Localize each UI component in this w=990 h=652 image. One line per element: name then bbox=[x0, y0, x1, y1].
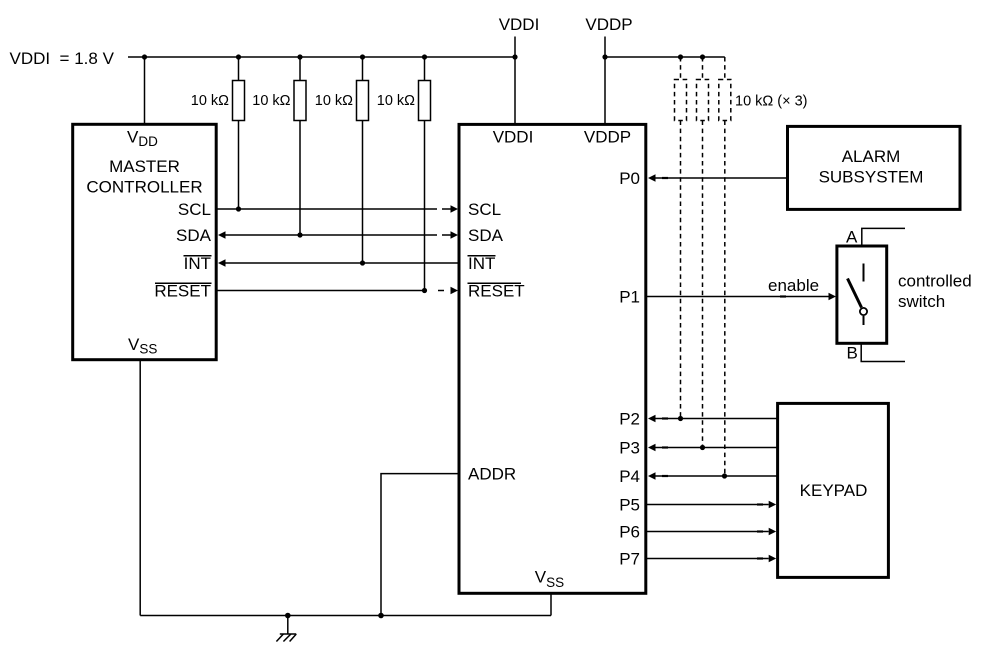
resistor R7 dashed 10 kOhm bbox=[719, 57, 731, 476]
terminal B stub bbox=[861, 343, 905, 361]
wire P7 net bbox=[646, 555, 776, 563]
node junction VDDP rail at drop bbox=[602, 54, 607, 59]
svg-text:P1: P1 bbox=[619, 288, 640, 307]
node junction R4 top bbox=[422, 54, 427, 59]
svg-text:P2: P2 bbox=[619, 410, 640, 429]
resistor R1 10 kOhm bbox=[233, 57, 245, 209]
wire SCL net bbox=[218, 205, 459, 213]
svg-text:P4: P4 bbox=[619, 467, 640, 486]
svg-text:P3: P3 bbox=[619, 439, 640, 458]
svg-text:controlled: controlled bbox=[898, 272, 972, 291]
svg-text:10 kΩ: 10 kΩ bbox=[252, 93, 290, 109]
node junction RESET/R4 bbox=[422, 288, 427, 293]
svg-text:KEYPAD: KEYPAD bbox=[800, 481, 868, 500]
node junction SCL/R1 bbox=[236, 206, 241, 211]
wire P1 enable net bbox=[646, 293, 836, 301]
svg-text:A: A bbox=[846, 227, 858, 246]
svg-text:VDDI: VDDI bbox=[493, 128, 534, 147]
wire INT net bbox=[218, 259, 459, 267]
svg-text:B: B bbox=[847, 344, 858, 363]
wire P3 net bbox=[648, 444, 777, 452]
block ALARM SUBSYSTEM bbox=[788, 126, 961, 209]
resistor R2 10 kOhm bbox=[294, 57, 306, 235]
svg-text:P0: P0 bbox=[619, 169, 640, 188]
wire P6 net bbox=[646, 528, 776, 536]
terminal A stub bbox=[862, 228, 905, 246]
svg-text:VDDI: VDDI bbox=[499, 15, 540, 34]
node junction ground tap bbox=[285, 613, 291, 619]
wire VDDP supply drop bbox=[604, 37, 606, 125]
svg-text:INT: INT bbox=[468, 254, 495, 273]
switch bottom contact bbox=[863, 316, 865, 325]
svg-text:10 kΩ: 10 kΩ bbox=[315, 93, 353, 109]
svg-text:switch: switch bbox=[898, 292, 945, 311]
node junction R6 top bbox=[700, 54, 705, 59]
switch lever bbox=[848, 279, 862, 308]
wire P5 net bbox=[646, 501, 776, 509]
controlled switch S1 bbox=[837, 246, 887, 343]
svg-text:RESET: RESET bbox=[154, 282, 211, 301]
svg-text:SUBSYSTEM: SUBSYSTEM bbox=[819, 168, 924, 187]
node junction SDA/R2 bbox=[297, 232, 302, 237]
svg-text:CONTROLLER: CONTROLLER bbox=[86, 178, 202, 197]
svg-text:ALARM: ALARM bbox=[842, 147, 901, 166]
svg-text:P7: P7 bbox=[619, 550, 640, 569]
node junction ADDR tap bbox=[378, 613, 384, 619]
node junction VDDI rail end bbox=[512, 54, 517, 59]
block MASTER CONTROLLER U1 bbox=[73, 124, 217, 359]
node junction VDD drop bbox=[142, 54, 147, 59]
node junction P4/R7 bbox=[722, 473, 727, 478]
svg-text:SCL: SCL bbox=[468, 200, 501, 219]
node junction R1 top bbox=[236, 54, 241, 59]
node junction P2/R5 bbox=[678, 416, 683, 421]
resistor R5 dashed 10 kOhm bbox=[675, 57, 687, 419]
svg-text:INT: INT bbox=[184, 254, 211, 273]
svg-text:ADDR: ADDR bbox=[468, 465, 516, 484]
resistor R3 10 kOhm bbox=[357, 57, 369, 263]
resistor R4 10 kOhm bbox=[419, 57, 431, 291]
wire VSS bottom net bbox=[140, 360, 551, 616]
wire VDDI supply drop bbox=[514, 37, 516, 125]
svg-text:SDA: SDA bbox=[468, 226, 504, 245]
block I/O expander U2 bbox=[459, 124, 646, 593]
svg-text:VDDI = 1.8 V: VDDI = 1.8 V bbox=[10, 49, 115, 68]
svg-text:SCL: SCL bbox=[178, 200, 211, 219]
node junction INT/R3 bbox=[360, 260, 365, 265]
wire SDA net bbox=[218, 231, 458, 239]
svg-text:MASTER: MASTER bbox=[109, 157, 180, 176]
switch top contact bbox=[863, 264, 865, 282]
node junction R2 top bbox=[297, 54, 302, 59]
wire RESET net bbox=[218, 287, 459, 295]
wire VDDI rail bbox=[128, 56, 515, 58]
wire P4 net bbox=[648, 472, 777, 480]
wire P2 net bbox=[648, 415, 777, 423]
wire P0 net bbox=[648, 174, 787, 182]
svg-text:P6: P6 bbox=[619, 523, 640, 542]
svg-text:10 kΩ: 10 kΩ bbox=[191, 93, 229, 109]
wire VDD drop bbox=[144, 57, 146, 124]
ground symbol bbox=[276, 616, 296, 642]
switch pivot circle bbox=[860, 308, 867, 315]
wire ADDR net bbox=[381, 474, 459, 616]
svg-text:SDA: SDA bbox=[176, 226, 212, 245]
svg-text:10 kΩ (× 3): 10 kΩ (× 3) bbox=[735, 94, 808, 110]
svg-text:VDDP: VDDP bbox=[584, 128, 631, 147]
svg-text:10 kΩ: 10 kΩ bbox=[377, 93, 415, 109]
svg-text:RESET: RESET bbox=[468, 282, 525, 301]
svg-text:P5: P5 bbox=[619, 496, 640, 515]
node junction R5 top bbox=[678, 54, 683, 59]
wire VDDP rail bbox=[605, 56, 725, 58]
block KEYPAD bbox=[778, 403, 889, 577]
node junction R3 top bbox=[360, 54, 365, 59]
resistor R6 dashed 10 kOhm bbox=[697, 57, 709, 448]
svg-text:enable: enable bbox=[768, 276, 819, 295]
svg-text:VDDP: VDDP bbox=[585, 15, 632, 34]
node junction P3/R6 bbox=[700, 445, 705, 450]
